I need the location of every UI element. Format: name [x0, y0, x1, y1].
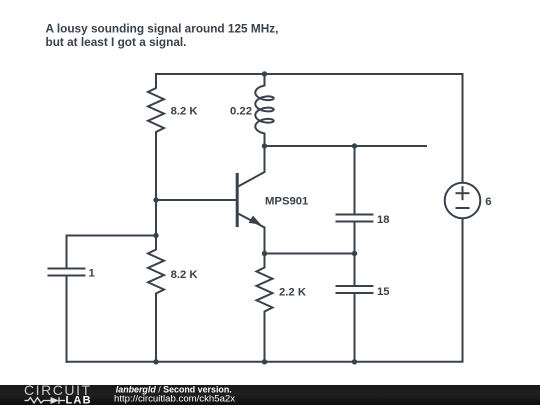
svg-text:6: 6 [485, 196, 491, 208]
svg-text:15: 15 [377, 286, 390, 298]
junction C2/C3 node [352, 251, 357, 256]
resistor R1 8.2 K [148, 74, 164, 200]
junction L1 bottom / collector node [262, 143, 267, 148]
junction C2 top [352, 143, 357, 148]
transistor Q1 emitter arrow [249, 216, 261, 225]
svg-text:0.22: 0.22 [230, 105, 252, 117]
wire C1 bottom lead [66, 276, 68, 363]
svg-text:1: 1 [89, 268, 95, 280]
wire collector node rail [265, 145, 428, 147]
voltage source V1 leads [462, 73, 464, 183]
wire top rail [155, 73, 464, 75]
capacitor C2 18 leads [354, 146, 356, 215]
svg-text:A lousy sounding signal around: A lousy sounding signal around 125 MHz, [46, 21, 279, 35]
svg-text:LAB: LAB [66, 394, 92, 405]
wire bottom rail [66, 361, 464, 363]
junction bottom R2 [153, 359, 158, 364]
footer bar [0, 385, 540, 405]
junction C1 node [153, 233, 158, 238]
capacitor C2 18 plates [336, 214, 374, 216]
junction bottom C3 [352, 359, 357, 364]
svg-text:http://circuitlab.com/ckh5a2x: http://circuitlab.com/ckh5a2x [114, 393, 235, 404]
svg-text:18: 18 [377, 214, 390, 226]
junction L1 top [262, 71, 267, 76]
resistor R3 2.2 K [257, 254, 273, 362]
svg-text:but at least I got a signal.: but at least I got a signal. [46, 35, 187, 49]
wire C1 to base branch [67, 236, 157, 269]
wire base [156, 199, 237, 201]
inductor L1 0.22 [255, 74, 273, 146]
junction base node [153, 197, 158, 202]
svg-text:8.2 K: 8.2 K [171, 269, 199, 281]
capacitor C3 15 leads [354, 254, 356, 287]
capacitor C3 15 plates [336, 285, 374, 287]
CircuitLab logo resistor-diode glyph [25, 397, 66, 404]
junction bottom R3 [262, 359, 267, 364]
svg-text:8.2 K: 8.2 K [171, 105, 199, 117]
transistor Q1 base bar [236, 173, 239, 227]
voltage source V1 minus sign [456, 207, 470, 209]
svg-text:2.2 K: 2.2 K [279, 287, 307, 299]
voltage source V1 circle [445, 183, 481, 219]
transistor Q1 collector [239, 146, 265, 186]
voltage source V1 plus sign [456, 192, 470, 194]
transistor Q1 emitter [239, 214, 265, 254]
wire emitter node rail [265, 253, 355, 255]
svg-text:MPS901: MPS901 [265, 196, 308, 208]
capacitor C1 1 plates [48, 268, 86, 270]
resistor R2 8.2 K [148, 200, 164, 362]
junction emitter node [262, 251, 267, 256]
